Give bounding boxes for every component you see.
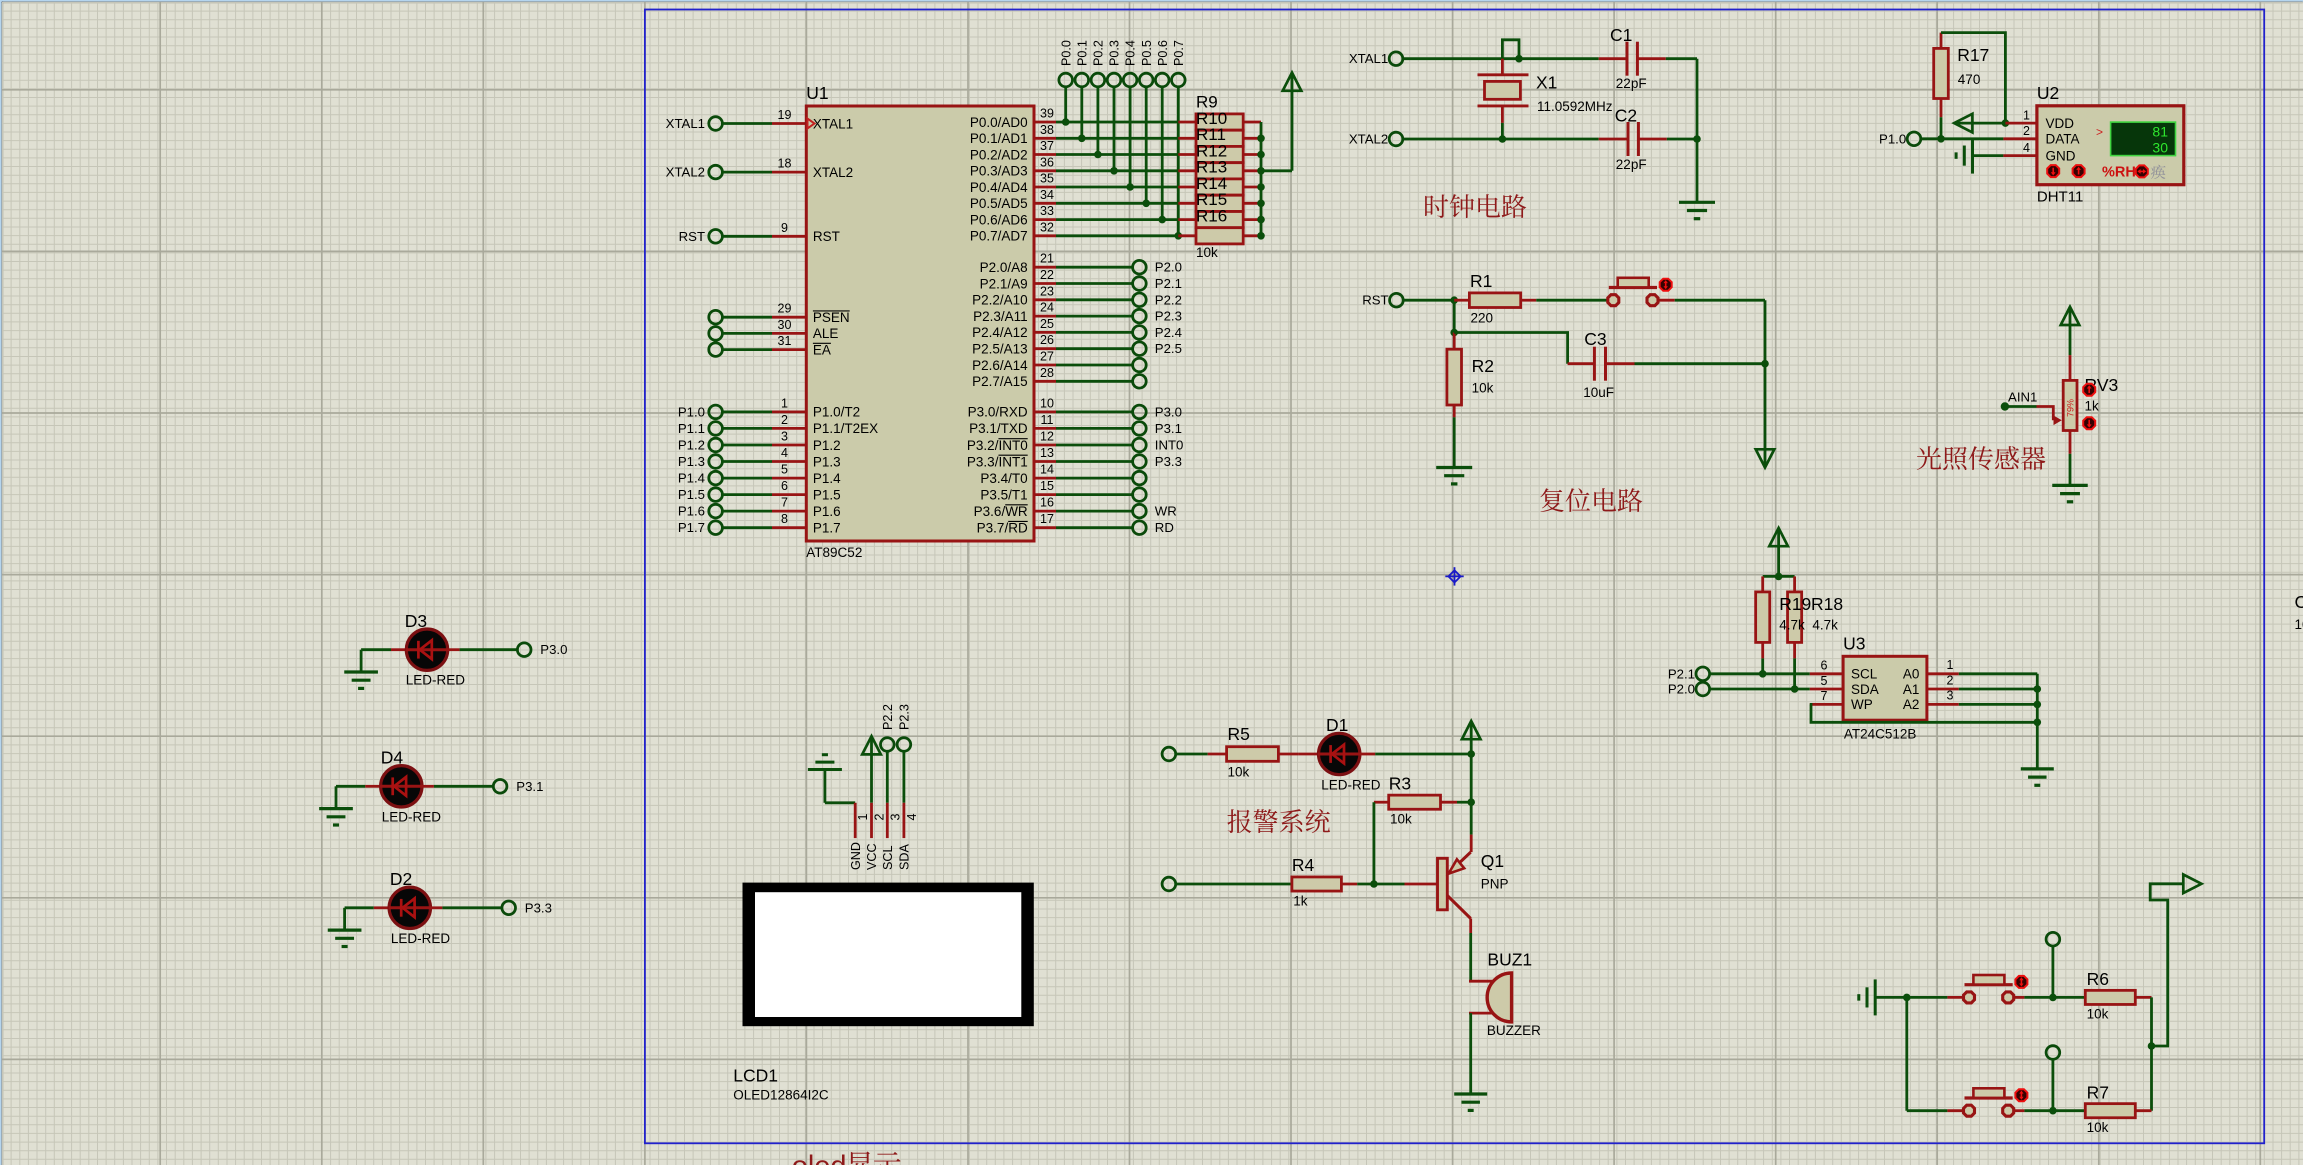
svg-text:P0.0/AD0: P0.0/AD0 [970, 115, 1028, 130]
svg-text:P0.3: P0.3 [1108, 40, 1122, 66]
svg-text:DHT11: DHT11 [2037, 189, 2083, 206]
svg-text:R2: R2 [1472, 356, 1494, 376]
wire R17 top to VDD [1941, 33, 2009, 127]
ground (reset circuit) [1436, 468, 1472, 484]
svg-text:1k: 1k [2085, 399, 2100, 414]
svg-text:P0.6: P0.6 [1156, 40, 1170, 66]
button reset state icon [1660, 279, 1672, 291]
U1 pin 27 (P2.6/A14) with terminal [972, 350, 1146, 373]
led D4 LED-RED [336, 748, 441, 825]
svg-text:P2.3: P2.3 [898, 704, 912, 730]
svg-text:1: 1 [781, 396, 788, 410]
svg-text:LCD1: LCD1 [733, 1066, 778, 1086]
svg-text:2: 2 [781, 413, 788, 427]
wire crystal top loop [1502, 40, 1519, 59]
terminal (alarm base input) [1162, 877, 1176, 891]
svg-text:BUZ1: BUZ1 [1487, 950, 1532, 970]
svg-text:P3.3: P3.3 [1155, 454, 1182, 469]
power arrow VDD (DHT11) [1954, 114, 2005, 133]
svg-text:D2: D2 [390, 869, 412, 889]
svg-text:10k: 10k [1390, 812, 1412, 827]
wire key2 to R7 [2015, 1107, 2085, 1115]
U1 pin 39 (P0.0/AD0) [970, 107, 1178, 130]
button key1 state icon [2015, 976, 2027, 988]
svg-text:GND: GND [2046, 148, 2076, 163]
svg-text:11.0592MHz: 11.0592MHz [1537, 99, 1613, 114]
U1 pin 14 (P3.4/T0) with terminal [980, 463, 1146, 486]
svg-text:35: 35 [1040, 172, 1054, 186]
svg-text:10k: 10k [2087, 1007, 2109, 1022]
svg-text:P2.2: P2.2 [881, 704, 895, 730]
resistor R17 470 [1934, 33, 1990, 118]
svg-text:RST: RST [679, 229, 705, 244]
svg-text:P3.6/WR: P3.6/WR [974, 504, 1028, 519]
ground (DHT11) [1956, 138, 2003, 174]
svg-text:XTAL2: XTAL2 [813, 165, 853, 180]
svg-text:RD: RD [1155, 520, 1174, 535]
power VCC arrow (U3 pull-ups) [1769, 528, 1788, 580]
svg-text:R1: R1 [1470, 271, 1492, 291]
U1 pin 32 (P0.7/AD7) [970, 220, 1178, 243]
svg-text:P2.0/A8: P2.0/A8 [980, 260, 1028, 275]
svg-text:23: 23 [1040, 284, 1054, 298]
terminal P2.1 (I2C SCL) [1668, 666, 1710, 681]
window edge chrome [0, 0, 2303, 2]
resistor R6 10k [2084, 969, 2152, 1022]
U1 pin 22 (P2.1/A9) with terminal [980, 268, 1182, 291]
svg-text:P3.0/RXD: P3.0/RXD [968, 405, 1028, 420]
svg-text:A2: A2 [1903, 697, 1920, 712]
svg-text:3: 3 [888, 814, 902, 821]
U1 pin 8 (P1.7) with terminal [678, 512, 841, 535]
wire R6-R7 rail [2148, 997, 2156, 1110]
capacitor C1 22pF [1599, 25, 1666, 91]
svg-text:14: 14 [1040, 463, 1054, 477]
resistor R5 10k [1176, 724, 1299, 780]
svg-text:4.7k: 4.7k [1779, 618, 1805, 633]
svg-text:P3.2/INT0: P3.2/INT0 [967, 438, 1028, 453]
resistor R4 1k [1176, 855, 1374, 909]
wire WP to ground rail [1810, 704, 2041, 726]
svg-text:DATA: DATA [2046, 132, 2080, 147]
U1 pin 35 (P0.4/AD4) [970, 172, 1178, 195]
U1 pin 25 (P2.4/A12) with terminal [972, 317, 1182, 340]
svg-text:P1.1: P1.1 [678, 421, 705, 436]
wire RST node [1403, 296, 1458, 336]
svg-text:10: 10 [1040, 396, 1054, 410]
svg-text:P0.7: P0.7 [1172, 40, 1186, 66]
ground (LCD) [808, 755, 855, 803]
svg-text:A0: A0 [1903, 667, 1920, 682]
svg-text:P2.3/A11: P2.3/A11 [973, 309, 1028, 324]
wire ground rail to key2 [1907, 997, 1965, 1110]
svg-text:22: 22 [1040, 268, 1054, 282]
svg-text:P2.5: P2.5 [1155, 341, 1182, 356]
svg-text:D3: D3 [405, 611, 427, 631]
svg-text:P3.0: P3.0 [1155, 404, 1182, 419]
svg-text:LED-RED: LED-RED [1321, 777, 1381, 792]
svg-text:P1.3: P1.3 [678, 454, 705, 469]
svg-text:81: 81 [2152, 124, 2168, 140]
P0.6 bus terminal [1155, 40, 1169, 87]
svg-text:P1.1/T2EX: P1.1/T2EX [813, 421, 878, 436]
svg-text:5: 5 [1821, 674, 1828, 688]
svg-text:5: 5 [781, 463, 788, 477]
origin marker [1445, 567, 1463, 585]
svg-text:P0.6/AD6: P0.6/AD6 [970, 212, 1028, 227]
DHT11 %RH label [2102, 164, 2136, 180]
svg-text:16: 16 [1040, 496, 1054, 510]
svg-text:P0.1/AD1: P0.1/AD1 [970, 131, 1028, 146]
U1 pin 13 (P3.3/INT1) with terminal [967, 446, 1182, 469]
wire reset node to C3 [1454, 333, 1567, 364]
transistor Q1 PNP [1374, 802, 1509, 933]
svg-text:ALE: ALE [813, 326, 839, 341]
svg-text:13: 13 [1040, 446, 1054, 460]
svg-text:2: 2 [1947, 673, 1954, 687]
resistor R18 4.7k [1788, 576, 1802, 658]
wire AIN1 to wiper [2001, 390, 2062, 426]
svg-text:P3.3/INT1: P3.3/INT1 [967, 454, 1028, 469]
svg-text:P3.1: P3.1 [1155, 421, 1182, 436]
svg-text:P0.3/AD3: P0.3/AD3 [970, 164, 1028, 179]
ground arrow (reset circuit) [1756, 449, 1775, 467]
label 时钟电路 [1425, 194, 1526, 218]
ground (U3) [2021, 769, 2054, 785]
ground (buzzer) [1454, 1094, 1487, 1110]
sensor U2 DHT11 body [2003, 83, 2183, 206]
terminal RST (reset circuit) [1362, 293, 1403, 308]
power arrow (keys) [2183, 875, 2201, 894]
U1 pin 24 (P2.3/A11) with terminal [973, 301, 1182, 324]
wire P0.1 vertical [1078, 87, 1086, 143]
svg-text:SDA: SDA [1851, 682, 1879, 697]
clipped component label C at right edge [2295, 592, 2303, 632]
svg-text:P2.4/A12: P2.4/A12 [972, 325, 1028, 340]
svg-text:XTAL1: XTAL1 [666, 116, 705, 131]
svg-text:3: 3 [1947, 689, 1954, 703]
svg-text:XTAL2: XTAL2 [666, 165, 705, 180]
svg-text:OLED12864I2C: OLED12864I2C [733, 1088, 829, 1103]
svg-text:LED-RED: LED-RED [406, 673, 466, 688]
resistor R19 4.7k [1756, 576, 1770, 658]
svg-text:28: 28 [1040, 366, 1054, 380]
P0.1 bus terminal [1075, 40, 1089, 87]
wire D2 to terminal [442, 906, 502, 909]
wire P0.6 vertical [1158, 87, 1166, 224]
P0.3 bus terminal [1107, 40, 1121, 87]
svg-text:R19: R19 [1779, 594, 1811, 614]
svg-text:R18: R18 [1811, 594, 1843, 614]
svg-text:P2.6/A14: P2.6/A14 [972, 358, 1028, 373]
wire reset button to ground arrow [1659, 300, 1769, 450]
ground (D3) [344, 650, 378, 689]
push button key1 [1964, 975, 2014, 1003]
svg-text:U2: U2 [2037, 83, 2059, 103]
svg-text:P2.3: P2.3 [1155, 309, 1182, 324]
U1 pin 3 (P1.2) with terminal [678, 430, 841, 453]
svg-text:2: 2 [2023, 124, 2030, 138]
U1 pin 30 (ALE) with terminal [709, 318, 839, 341]
svg-text:220: 220 [1471, 311, 1494, 326]
buzzer BUZ1 [1469, 950, 1541, 1039]
wire C1/C2 to ground rail [1666, 59, 1701, 203]
U1 pin 37 (P0.2/AD2) [970, 139, 1178, 162]
svg-text:21: 21 [1040, 252, 1054, 266]
capacitor C2 22pF [1599, 106, 1667, 173]
svg-text:1: 1 [1947, 658, 1954, 672]
svg-text:P1.7: P1.7 [678, 520, 705, 535]
wire P0.3 vertical [1110, 87, 1118, 175]
svg-text:10k: 10k [2087, 1120, 2109, 1135]
U1 pin 29 (PSEN) with terminal [709, 302, 850, 325]
label 光照传感器 [1917, 446, 2045, 470]
svg-text:%RH: %RH [2102, 164, 2136, 180]
svg-text:15: 15 [1040, 479, 1054, 493]
svg-text:R3: R3 [1389, 774, 1411, 794]
U1 pin 9 (RST) with terminal [679, 221, 840, 244]
terminal (key2 net) [2046, 1046, 2060, 1111]
svg-text:4.7k: 4.7k [1812, 618, 1838, 633]
svg-text:RST: RST [1362, 293, 1388, 308]
svg-text:C1: C1 [1610, 25, 1632, 45]
svg-text:VCC: VCC [865, 843, 879, 870]
svg-text:25: 25 [1040, 317, 1054, 331]
terminal P3.1 [493, 779, 543, 794]
U1 pin 10 (P3.0/RXD) with terminal [968, 396, 1182, 419]
svg-text:17: 17 [1040, 512, 1054, 526]
DHT11 mode button icon [2136, 165, 2148, 177]
svg-text:P0.4: P0.4 [1124, 40, 1138, 66]
U1 pin 33 (P0.6/AD6) [970, 204, 1178, 227]
wire R3 to base node [1370, 802, 1378, 888]
svg-text:P2.4: P2.4 [1155, 325, 1182, 340]
svg-text:4: 4 [905, 814, 919, 821]
svg-text:XTAL1: XTAL1 [813, 116, 853, 131]
svg-text:29: 29 [778, 302, 792, 316]
svg-text:22pF: 22pF [1616, 76, 1647, 91]
svg-text:WP: WP [1851, 697, 1873, 712]
svg-text:36: 36 [1040, 155, 1054, 169]
label oled显示 [792, 1150, 901, 1165]
wire R2 to ground [1453, 417, 1456, 467]
svg-text:AT89C52: AT89C52 [806, 545, 862, 560]
svg-text:3: 3 [781, 430, 788, 444]
wire RV3 to ground [2069, 454, 2072, 486]
svg-text:11: 11 [1041, 413, 1054, 427]
svg-text:P0.2: P0.2 [1092, 40, 1106, 66]
svg-text:1k: 1k [1293, 894, 1308, 909]
svg-text:7: 7 [781, 496, 788, 510]
svg-text:470: 470 [1958, 72, 1981, 87]
svg-text:EA: EA [813, 342, 831, 357]
LCD pin stubs [849, 803, 919, 870]
svg-text:GND: GND [849, 842, 863, 870]
svg-text:P2.2/A10: P2.2/A10 [972, 293, 1028, 308]
svg-text:P2.0: P2.0 [1155, 260, 1182, 275]
svg-text:P1.7: P1.7 [813, 521, 841, 536]
U1 pin 1 (P1.0/T2) with terminal [678, 396, 860, 419]
resistor R2 10k [1447, 333, 1494, 418]
terminal P3.0 [517, 642, 567, 657]
svg-text:U3: U3 [1843, 634, 1865, 654]
U1 pin 31 (EA) with terminal [709, 334, 831, 357]
wire R1 to reset button [1536, 299, 1607, 302]
svg-text:VDD: VDD [2046, 116, 2075, 131]
power VCC arrow (pull-up rail) [1283, 73, 1302, 171]
svg-text:P1.5: P1.5 [813, 487, 841, 502]
P0.4 bus terminal [1123, 40, 1137, 87]
eeprom U3 AT24C512B body [1810, 634, 1927, 742]
svg-text:Q1: Q1 [1481, 851, 1504, 871]
svg-text:31: 31 [778, 334, 792, 348]
wire resistor pack output rail [1257, 122, 1292, 240]
svg-text:C3: C3 [1584, 329, 1606, 349]
U1 pin 5 (P1.4) with terminal [678, 463, 841, 486]
terminal XTAL2 (clock circuit) [1349, 132, 1403, 147]
power VCC arrow (alarm) [1462, 721, 1481, 754]
svg-text:P1.2: P1.2 [678, 438, 705, 453]
svg-text:P2.1: P2.1 [1668, 666, 1695, 681]
resistor R7 10k [2084, 1082, 2152, 1135]
ground (clock circuit) [1679, 202, 1715, 218]
svg-text:U1: U1 [806, 83, 828, 103]
terminal XTAL1 (clock circuit) [1349, 51, 1403, 66]
svg-text:P3.7/RD: P3.7/RD [977, 521, 1028, 536]
svg-text:D1: D1 [1326, 715, 1348, 735]
button key2 state icon [2015, 1089, 2027, 1101]
P0.2 bus terminal [1091, 40, 1105, 87]
wire P0.7 vertical [1175, 87, 1183, 240]
terminal P2.0 (I2C SDA) [1668, 682, 1710, 697]
wire P0.2 vertical [1094, 87, 1102, 159]
svg-text:24: 24 [1040, 301, 1054, 315]
svg-text:18: 18 [778, 157, 792, 171]
wire LCD SDA [903, 751, 906, 803]
svg-text:30: 30 [2152, 140, 2168, 156]
resistor R3 10k [1374, 774, 1471, 827]
U3 pins A0 A1 A2 [1927, 658, 2037, 704]
svg-text:X1: X1 [1536, 73, 1557, 93]
wire XTAL2 to C2 [1403, 138, 1599, 141]
svg-text:6: 6 [1821, 658, 1828, 672]
ground (keys) [1859, 979, 1911, 1015]
svg-text:2: 2 [873, 814, 887, 821]
wire ground to key1 [1907, 996, 1965, 999]
ground (D4) [319, 786, 353, 825]
svg-text:12: 12 [1040, 430, 1054, 444]
led D2 LED-RED [345, 869, 451, 946]
microcontroller U1 AT89C52 body [806, 83, 1034, 560]
DHT11 up button icon [2073, 165, 2085, 177]
svg-text:6: 6 [781, 479, 788, 493]
svg-text:C4: C4 [2295, 592, 2303, 612]
svg-text:33: 33 [1040, 204, 1054, 218]
svg-text:7: 7 [1821, 689, 1828, 703]
label 报警系统 [1227, 809, 1330, 833]
wire crystal to XTAL2 [1499, 123, 1507, 143]
push button key2 [1964, 1088, 2014, 1116]
svg-text:P2.1: P2.1 [1155, 276, 1182, 291]
svg-text:INT0: INT0 [1155, 438, 1184, 453]
label 复位电路 [1540, 488, 1642, 512]
U1 pin 17 (P3.7/RD) with terminal [977, 512, 1174, 535]
U1 pin 7 (P1.6) with terminal [678, 496, 841, 519]
DHT11 gray unit glyph [2151, 165, 2166, 179]
U1 pin 23 (P2.2/A10) with terminal [972, 284, 1182, 307]
U1 pin 34 (P0.5/AD5) [970, 188, 1178, 211]
terminal P3.3 [502, 900, 552, 915]
resistor pack R9-R16 bodies [1178, 114, 1261, 244]
ground (D2) [328, 908, 362, 947]
svg-text:R7: R7 [2087, 1082, 2109, 1102]
U1 pin 16 (P3.6/WR) with terminal [974, 496, 1177, 519]
svg-text:P3.1/TXD: P3.1/TXD [969, 421, 1028, 436]
svg-text:79%: 79% [2066, 399, 2076, 417]
svg-text:32: 32 [1040, 220, 1054, 234]
RV3 up icon [2083, 384, 2095, 396]
svg-text:SDA: SDA [898, 844, 912, 870]
svg-text:38: 38 [1040, 123, 1054, 137]
P0.0 bus terminal [1059, 40, 1073, 87]
svg-text:30: 30 [778, 318, 792, 332]
capacitor C3 10uF [1568, 329, 1635, 400]
U1 pin 28 (P2.7/A15) with terminal [972, 366, 1146, 389]
svg-text:4: 4 [781, 446, 788, 460]
svg-text:10uF: 10uF [2295, 617, 2303, 632]
svg-text:P3.4/T0: P3.4/T0 [980, 471, 1027, 486]
svg-text:P1.6: P1.6 [678, 504, 705, 519]
wire P0.0 vertical [1062, 87, 1070, 126]
svg-text:>: > [2096, 125, 2103, 139]
svg-text:PSEN: PSEN [813, 310, 850, 325]
led D3 LED-RED [361, 611, 465, 688]
wire D3 to terminal [460, 648, 518, 651]
svg-text:A1: A1 [1903, 682, 1920, 697]
wire rail to power arrow [2150, 884, 2184, 1046]
svg-text:oled: oled [792, 1150, 847, 1165]
U1 pin 18 (XTAL2) with terminal [666, 157, 854, 180]
svg-text:19: 19 [778, 108, 792, 122]
svg-text:WR: WR [1155, 504, 1177, 519]
svg-text:P0.7/AD7: P0.7/AD7 [970, 229, 1028, 244]
push button reset [1608, 278, 1658, 306]
svg-text:P2.0: P2.0 [1668, 682, 1695, 697]
P0.5 bus terminal [1139, 40, 1153, 87]
svg-text:9: 9 [781, 221, 788, 235]
svg-text:8: 8 [781, 512, 788, 526]
svg-text:4: 4 [2023, 141, 2030, 155]
U1 pin 26 (P2.5/A13) with terminal [972, 333, 1182, 356]
wire D1 to VCC node [1375, 750, 1475, 758]
U1 pin 38 (P0.1/AD1) [970, 123, 1178, 146]
svg-text:26: 26 [1040, 333, 1054, 347]
wire Q1 collector to buzzer [1469, 933, 1472, 981]
wire D4 to terminal [434, 785, 494, 788]
terminal P2.2 (LCD SCL) [881, 704, 895, 751]
wire key1 to R6 [2015, 994, 2085, 1002]
svg-text:P2.1/A9: P2.1/A9 [980, 276, 1028, 291]
svg-text:SCL: SCL [881, 846, 895, 871]
svg-text:22pF: 22pF [1616, 157, 1647, 172]
svg-text:PNP: PNP [1481, 877, 1509, 892]
svg-text:P1.3: P1.3 [813, 454, 841, 469]
svg-text:P1.5: P1.5 [678, 487, 705, 502]
labels R19 R18 4.7k [1779, 594, 1843, 633]
svg-text:10k: 10k [1472, 381, 1494, 396]
svg-text:27: 27 [1040, 350, 1054, 364]
svg-text:P3.5/T1: P3.5/T1 [980, 487, 1027, 502]
